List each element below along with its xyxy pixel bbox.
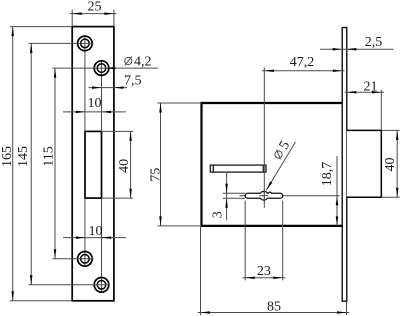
svg-text:10: 10 bbox=[89, 224, 103, 239]
svg-text:21: 21 bbox=[364, 79, 378, 94]
dim 40 bolt bbox=[381, 129, 399, 131]
dim 7,5 bbox=[89, 87, 128, 89]
svg-text:40: 40 bbox=[383, 158, 398, 172]
hole H2 bbox=[94, 61, 109, 76]
svg-text:145: 145 bbox=[16, 146, 31, 167]
hole H3 bbox=[78, 251, 93, 266]
vertical centerline (47,2 -> below key) bbox=[263, 68, 265, 208]
horizontal centerline left seg bbox=[240, 195, 246, 197]
ext line h1 center bbox=[29, 42, 94, 44]
dim 40 slot bbox=[102, 130, 134, 132]
svg-text:7,5: 7,5 bbox=[124, 74, 142, 89]
dim 2,5 bbox=[320, 48, 394, 50]
svg-text:47,2: 47,2 bbox=[290, 55, 315, 70]
svg-text:5: 5 bbox=[277, 139, 293, 153]
dim 10 bottom bbox=[63, 237, 126, 239]
ext line h3 center bbox=[52, 258, 93, 260]
dim 145 bbox=[30, 43, 32, 284]
ext line plate bottom bbox=[10, 300, 72, 302]
dim 115 bbox=[54, 68, 56, 259]
svg-text:40: 40 bbox=[117, 159, 132, 173]
svg-text:4,2: 4,2 bbox=[134, 54, 152, 69]
dia 5 text bbox=[271, 139, 293, 162]
ext line plate top bbox=[10, 26, 72, 28]
key bit shape bbox=[245, 191, 283, 200]
svg-text:115: 115 bbox=[41, 146, 56, 166]
plate outline bbox=[72, 27, 114, 301]
dim 47,2 bbox=[262, 70, 345, 72]
hole H4 bbox=[94, 278, 109, 293]
label dia 4,2 leader arrow bbox=[106, 67, 116, 70]
dim 10 top bbox=[63, 111, 126, 113]
svg-text:25: 25 bbox=[88, 0, 102, 15]
svg-text:2,5: 2,5 bbox=[365, 35, 383, 50]
dim 85 bbox=[200, 227, 202, 315]
svg-text:23: 23 bbox=[257, 264, 271, 279]
leader dia 5 bbox=[266, 142, 295, 190]
faceplate bbox=[342, 28, 347, 302]
label dia 4,2 text bbox=[125, 57, 132, 64]
dim 18,7 bbox=[336, 156, 338, 226]
dim 165 bbox=[12, 27, 14, 301]
key bit ext lines (3mm) bbox=[223, 192, 245, 194]
case left bbox=[200, 102, 202, 227]
dim 3 bbox=[226, 172, 228, 220]
lever bar bbox=[210, 165, 266, 172]
bolt slot bbox=[85, 131, 102, 198]
hole H1 bbox=[78, 36, 93, 51]
hole centerline vertical slot->h3 bbox=[84, 198, 86, 267]
svg-text:3: 3 bbox=[211, 211, 226, 218]
dim 25 bbox=[71, 10, 73, 27]
svg-text:18,7: 18,7 bbox=[320, 162, 335, 187]
ext line h2 center + leader dia4,2 bbox=[52, 67, 158, 69]
horizontal centerline right seg / 18,7 ext bbox=[283, 195, 340, 197]
dim 21 bbox=[345, 91, 385, 93]
hole centerline vertical h1->slot bbox=[84, 36, 86, 132]
dim 75 bbox=[158, 102, 202, 104]
svg-text:10: 10 bbox=[88, 96, 102, 111]
hole centerline vertical h2->slot bbox=[101, 60, 103, 131]
ext line h4 center bbox=[29, 284, 110, 286]
svg-text:75: 75 bbox=[149, 168, 164, 182]
svg-text:165: 165 bbox=[0, 146, 15, 167]
hole centerline vertical slot->h4 bbox=[101, 198, 103, 293]
dim 23 bbox=[244, 201, 246, 281]
bolt bbox=[347, 130, 382, 197]
key bit circle cross ticks bbox=[259, 195, 268, 197]
case bottom bbox=[202, 225, 343, 227]
case top bbox=[202, 102, 343, 104]
svg-text:85: 85 bbox=[267, 300, 281, 315]
